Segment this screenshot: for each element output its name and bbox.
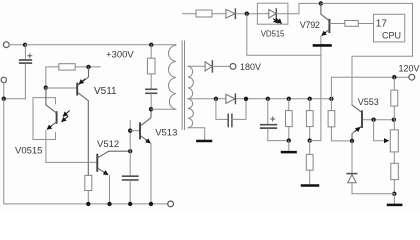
wire left vertical to bottom rail	[4, 99, 168, 204]
wire resistor to CPU pin 17	[358, 23, 373, 25]
wire branch down to 180V feedback line	[247, 14, 321, 56]
resistor snubber	[147, 45, 155, 74]
transistor V553 (PNP, base right)	[352, 105, 362, 141]
wire LED to step	[276, 3, 321, 13]
wire resistor to diode	[212, 13, 226, 15]
label V513	[155, 127, 177, 138]
wire primary bottom tap	[151, 108, 176, 110]
node rail resistor C / 120V rail corner	[329, 97, 333, 101]
transformer T primary winding	[169, 45, 176, 109]
capacitor electrolytic input filter	[20, 45, 32, 99]
node feedback divider	[308, 138, 312, 142]
node +300V rail / filter cap junction	[23, 43, 27, 47]
label V792	[300, 20, 320, 30]
node 120V rail sampling	[392, 75, 396, 79]
resistor 120V rail to base	[391, 77, 398, 120]
node V511 emitter	[86, 65, 90, 69]
wire diode to 180V terminal	[212, 65, 230, 67]
node rail electrolytic	[266, 97, 270, 101]
node V792 collector	[319, 1, 323, 5]
wire V553 base	[363, 119, 394, 121]
label CPU	[382, 30, 401, 40]
resistor C rail to V553 emitter	[328, 99, 352, 141]
transformer T secondary winding lower	[188, 99, 193, 128]
wire optocoupler emitter to V512 base	[46, 161, 97, 163]
terminal AC input top-left	[3, 42, 9, 48]
transistor V513 (NPN switching)	[140, 109, 151, 204]
ground divider	[282, 151, 296, 154]
potentiometer body	[390, 120, 398, 152]
light arrows out of VD515	[274, 19, 282, 24]
node top branch	[245, 12, 249, 16]
svg-text:V511: V511	[94, 86, 117, 97]
wire left of bias resistor with corner down to V511 base node	[46, 67, 59, 88]
node V553 emitter / zener	[350, 139, 354, 143]
label V511	[94, 86, 117, 97]
ground right column	[388, 204, 401, 207]
wire secondary bottom tap to ground	[188, 128, 205, 140]
wire top feedback line start	[183, 13, 197, 15]
wire top rail to right loop down to V553 collector	[321, 3, 413, 105]
diode rectifier 180V	[205, 61, 212, 72]
diode zener V553 emitter reference	[347, 141, 357, 194]
label V553	[358, 97, 379, 107]
capacitor bypass across rectifier (loop below)	[216, 99, 246, 127]
svg-text:V792: V792	[300, 20, 320, 30]
CPU box	[374, 14, 405, 42]
transformer T core	[182, 41, 184, 130]
wire resistor to V511 emitter node with right stub	[75, 66, 100, 68]
wire secondary top tap to diode	[188, 65, 205, 67]
node bottom rail / V513 emitter	[149, 202, 153, 206]
node bottom rail / resistor	[86, 202, 90, 206]
label 120V	[399, 63, 420, 73]
resistor V512 base to common	[85, 175, 92, 204]
node rail resistor A	[287, 97, 291, 101]
LED VD515	[269, 9, 277, 19]
svg-text:+300V: +300V	[106, 49, 134, 60]
wire zener to return node	[352, 193, 394, 195]
wire terminal down	[3, 83, 5, 99]
potentiometer wiper arrow	[385, 140, 388, 142]
optocoupler box V0515	[33, 98, 56, 140]
node base / wiper branch	[371, 118, 375, 122]
node base / resistor chain	[392, 118, 396, 122]
node V513 collector / primary bottom	[149, 107, 153, 111]
svg-text:V553: V553	[358, 97, 379, 107]
capacitor V513 base	[123, 151, 138, 204]
terminal 180V	[230, 64, 236, 70]
wire 120V rail	[331, 77, 409, 99]
wire V792 base to resistor	[330, 23, 345, 25]
node bottom rail / capacitor	[128, 202, 132, 206]
wire feedback node to V792 emitter branch	[310, 55, 321, 140]
optocoupler phototransistor V0515	[46, 88, 57, 163]
resistor LED series	[196, 10, 212, 17]
wire diode to branch node	[235, 13, 257, 15]
transformer T secondary winding upper	[188, 66, 193, 99]
capacitor snubber	[146, 74, 157, 109]
capacitor electrolytic input filter (plus sign)	[28, 54, 32, 58]
label VD515	[261, 29, 285, 38]
wire V511 base	[46, 87, 77, 89]
node rail resistor B	[308, 97, 312, 101]
light arrows into V0515	[62, 111, 70, 122]
resistor below potentiometer	[391, 152, 399, 194]
node divider ground	[287, 138, 291, 142]
transistor V511 (PNP, emitter up)	[77, 67, 88, 175]
svg-text:V0515: V0515	[15, 146, 42, 157]
svg-text:V513: V513	[155, 127, 177, 138]
resistor V511 emitter bias	[59, 64, 75, 70]
terminal AC input second	[1, 77, 6, 82]
capacitor electrolytic output filter (plus sign)	[271, 117, 275, 121]
label +300V	[106, 49, 134, 60]
svg-text:V512: V512	[97, 139, 119, 150]
wire V513 base to bar	[130, 130, 140, 132]
diode rectifier main on rail	[226, 94, 236, 104]
ground secondary bottom	[197, 140, 211, 143]
node V513 base	[128, 129, 132, 133]
wire terminal to +300V rail	[9, 44, 25, 46]
ground feedback divider	[302, 184, 318, 187]
diode top feedback	[226, 9, 236, 19]
wire cap bottom to left node	[4, 98, 26, 100]
optocoupler LED box VD515	[257, 3, 288, 24]
svg-text:180V: 180V	[240, 62, 261, 72]
node rail bypass right	[244, 97, 248, 101]
wire wiper branch	[374, 120, 386, 141]
pin label 17	[376, 18, 388, 29]
svg-text:VD515: VD515	[261, 29, 285, 38]
resistor V792 base	[345, 21, 359, 27]
wire into LED	[257, 13, 268, 15]
resistor B rail to feedback node	[306, 99, 313, 141]
wire electrolytic bottom to divider ground node	[268, 140, 289, 142]
ground V792 emitter	[314, 44, 331, 47]
node left rail junction	[2, 97, 6, 101]
node V512 collector / V513 base branch	[128, 149, 132, 153]
terminal 120V	[409, 74, 415, 80]
node rail bypass left	[214, 97, 218, 101]
terminal bottom rail right end	[168, 201, 174, 207]
wire V513 base vertical with stub up	[129, 121, 131, 152]
svg-text:CPU: CPU	[382, 30, 401, 40]
label V0515	[15, 146, 42, 157]
node V511 base / optocoupler collector	[44, 86, 48, 90]
transistor V512 (NPN)	[97, 151, 130, 204]
wire node to ground	[393, 194, 395, 204]
node bottom rail / V512 emitter	[107, 202, 111, 206]
node zener return	[392, 192, 396, 196]
capacitor electrolytic output filter	[261, 99, 277, 141]
wire stub to ground	[288, 141, 290, 151]
svg-text:120V: 120V	[399, 63, 420, 73]
label 180V	[240, 62, 261, 72]
resistor A rail to ground	[286, 99, 293, 141]
svg-text:17: 17	[376, 18, 388, 29]
label V512	[97, 139, 119, 150]
resistor feedback lower divider	[306, 141, 313, 185]
wire secondary middle tap rail 120V unregulated	[188, 98, 331, 100]
transistor V792 (base right)	[321, 3, 330, 55]
wire +300V rail	[25, 44, 176, 46]
node +300V rail / snubber	[149, 43, 153, 47]
